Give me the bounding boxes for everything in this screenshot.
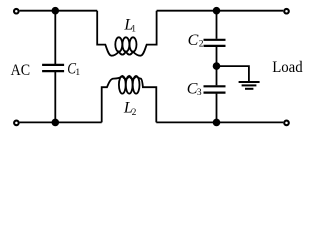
capacitor C2 (204, 11, 226, 66)
label L1 (123, 16, 136, 34)
svg-text:C: C (188, 32, 199, 49)
label C3 (187, 80, 202, 98)
junction bottom of C3 (213, 119, 221, 127)
wire bottom rail left (20, 121, 102, 123)
terminal bottom-left (14, 121, 19, 126)
terminal top-left (14, 9, 19, 14)
svg-text:Load: Load (272, 59, 303, 76)
label C2 (188, 32, 204, 49)
svg-text:3: 3 (197, 88, 202, 98)
wire to ground (217, 66, 249, 81)
wire bottom rail right (156, 121, 283, 123)
junction bottom of C1 (52, 119, 60, 127)
terminal bottom-right (284, 121, 289, 126)
svg-text:1: 1 (131, 25, 136, 35)
wire top rail right (157, 10, 284, 12)
svg-text:AC: AC (11, 62, 31, 79)
label L2 (123, 100, 137, 118)
junction node between C2 and C3 (213, 62, 221, 70)
svg-text:2: 2 (199, 39, 204, 49)
ground (239, 82, 260, 89)
svg-text:1: 1 (75, 68, 80, 78)
wire top rail left (20, 10, 98, 12)
junction top of C2 (213, 7, 221, 15)
terminal top-right (284, 9, 289, 14)
svg-text:2: 2 (132, 108, 137, 118)
capacitor C3 (204, 66, 226, 122)
inductor L2 (102, 76, 157, 122)
inductor L1 (97, 11, 156, 56)
label C1 (67, 61, 80, 79)
junction top of C1 (52, 7, 60, 15)
capacitor C1 (42, 11, 64, 123)
